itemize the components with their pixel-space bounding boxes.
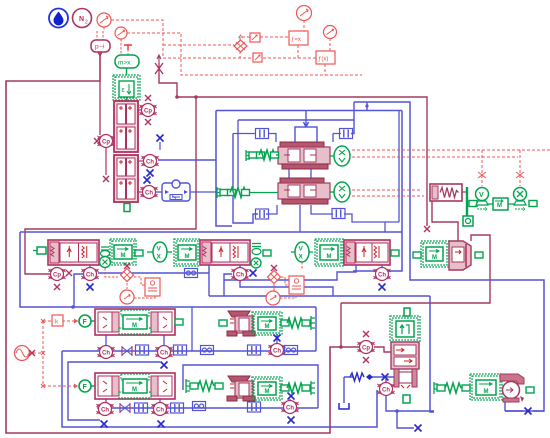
wire blue row1 left drop to bottom bus xyxy=(62,351,377,427)
port green right of M1 xyxy=(135,250,143,256)
port green left of pump xyxy=(413,252,421,258)
fixed pump spring chain left xyxy=(434,382,470,394)
spring chain left of damper1 xyxy=(246,150,279,161)
orifice Cp3 xyxy=(49,268,66,281)
lever link green xyxy=(463,187,477,226)
servovalve 1 xyxy=(48,240,99,265)
wire crimson to Cp bottom right xyxy=(341,347,393,352)
junction node B1 xyxy=(71,305,75,309)
hydraulic motor M3 xyxy=(315,239,343,266)
signal red dashed VX2 to diamond2 xyxy=(267,262,302,277)
signal red dashed gauge C drop xyxy=(303,20,305,31)
check valve Ch4 xyxy=(232,268,249,281)
signal red dashed drop to X meter xyxy=(519,150,521,186)
blue X below Ch row2 b xyxy=(158,421,165,428)
servovalve 3 xyxy=(344,240,390,265)
throttle valve X top xyxy=(155,55,163,74)
wire blue cylinder1 bottom stubs xyxy=(106,335,164,345)
red X above Cp1 xyxy=(145,95,151,101)
svg-text:M: M xyxy=(265,324,270,330)
wire blue Ch4 bottom to bus xyxy=(240,281,333,296)
blue X below Ch row2 a xyxy=(101,421,108,428)
signal box 2 xyxy=(289,276,304,294)
blue X on suction line xyxy=(525,408,532,415)
roller row2 xyxy=(193,402,206,411)
wire blue Ch3 left port down to cylinder feed xyxy=(74,274,83,307)
wire blue valve3 left stub to y280 xyxy=(224,263,356,280)
red X right of Cp3 xyxy=(66,270,72,276)
signal red dashed damper2 sensor pair xyxy=(352,190,424,196)
check valve Ch row1 a xyxy=(98,346,115,359)
capacitance row1 b xyxy=(174,345,187,355)
variable displacement pump motor xyxy=(421,241,449,267)
force source F2 xyxy=(79,380,95,392)
wire blue mid bus y232 xyxy=(20,231,402,233)
wire blue Ch4 top stub xyxy=(239,264,241,268)
wire blue Ch row1 line y351 xyxy=(62,350,316,352)
motor block section B xyxy=(252,377,282,400)
orifice Cp2 left of stack xyxy=(98,135,115,148)
signal red X mark on X drop xyxy=(516,172,524,178)
red X below Cp4 xyxy=(363,357,369,363)
wire blue upper bus y102 xyxy=(354,102,544,411)
svg-text:ƒ=x: ƒ=x xyxy=(291,37,301,43)
variable displacement pump body xyxy=(449,241,471,270)
blue X below ChB xyxy=(288,417,295,424)
accumulator xyxy=(430,184,466,201)
wire crimson accumulator drain xyxy=(432,201,458,241)
rotary actuator section A xyxy=(227,311,255,336)
gearbox VX ellipse 2 xyxy=(291,242,313,262)
position meter X xyxy=(514,188,538,211)
wire blue section B box xyxy=(183,365,318,408)
svg-text:F: F xyxy=(83,319,88,326)
check valve ChA xyxy=(269,344,286,357)
signal source sine circle xyxy=(15,346,36,361)
signal red dashed hwd drop xyxy=(324,64,326,75)
wire blue Ch1 to vertical x216 xyxy=(158,159,216,161)
wire Ch2 to pilot box xyxy=(156,191,162,193)
rotary damper 1 xyxy=(278,142,330,169)
spring chain left of damper2 xyxy=(217,187,278,198)
svg-text:M: M xyxy=(265,389,270,395)
signal red dashed lambda drop xyxy=(297,45,299,58)
wire blue vertical x430 xyxy=(430,296,434,412)
svg-text:F: F xyxy=(83,384,88,391)
port green right of fixed pump xyxy=(526,387,534,393)
red X below Cp1 xyxy=(145,119,151,125)
port green left of valve1 xyxy=(33,247,46,254)
hydraulic cylinder 2 xyxy=(95,373,175,399)
blue X below Ch5 xyxy=(379,284,386,291)
wire Cp2 to stack xyxy=(113,140,114,142)
wire blue mid return bus y296 xyxy=(209,295,430,297)
wire blue damper2 center drop xyxy=(299,205,301,232)
gauge 1 mid xyxy=(120,290,134,304)
check valve Ch row2 b xyxy=(152,403,169,416)
block lambda function xyxy=(289,31,308,45)
flow sensor X circle xyxy=(100,257,111,268)
svg-text:X: X xyxy=(157,254,162,261)
spring chain right section A xyxy=(281,316,315,330)
wire blue vertical x354 xyxy=(351,102,354,134)
wire blue actuatorA bottom stub xyxy=(276,334,278,343)
gauge A top left xyxy=(97,13,111,27)
capacitance below damper2 left xyxy=(256,209,269,219)
check valve Ch row1 b xyxy=(156,346,173,359)
svg-text:M: M xyxy=(497,203,502,209)
speed sensor ellipse damper2 xyxy=(330,182,350,202)
relief valve main body xyxy=(391,342,419,369)
summing diamond xyxy=(234,35,247,52)
blue X between Ch1 Ch2 xyxy=(147,170,154,177)
wire blue left column x233 xyxy=(233,134,258,224)
rotary damper 2 xyxy=(278,178,330,204)
svg-text:ε: ε xyxy=(122,87,125,94)
port green right of pump xyxy=(475,252,483,258)
signal red dashed source to k and F1 xyxy=(28,321,78,386)
nitrogen gas N2 icon xyxy=(73,9,92,28)
red X above Cp4 xyxy=(363,331,369,337)
blue X below Ch row1 b xyxy=(161,362,168,369)
svg-text:M: M xyxy=(121,253,126,259)
check valve Ch2 xyxy=(141,186,158,199)
svg-text:V: V xyxy=(299,246,304,253)
speed sensor ellipse damper1 xyxy=(330,146,350,166)
wire blue y120 branch xyxy=(238,119,354,121)
signal red arrows on F lines xyxy=(74,319,78,389)
svg-text:V: V xyxy=(479,192,484,199)
mass block M right xyxy=(488,198,514,210)
wire blue stub B2 xyxy=(366,102,368,111)
reservoir box top center xyxy=(295,127,317,143)
svg-text:N: N xyxy=(79,16,84,23)
hydraulic motor M2 xyxy=(174,239,200,266)
wire blue damper1 to damper2 xyxy=(289,169,311,178)
port green below relief valve xyxy=(403,395,410,403)
capacitance below damper2 right xyxy=(332,209,345,219)
junction node P2 xyxy=(194,95,198,99)
velocity meter V xyxy=(476,188,489,211)
wire Ch1 left port xyxy=(138,160,143,162)
signal red dashed to F2 xyxy=(43,385,78,387)
orifice Cp1 right of stack xyxy=(140,104,157,117)
blue X right of Ch4 xyxy=(250,270,257,277)
capacitance row2 b xyxy=(171,403,184,413)
wire blue arrow drop into reservoir box xyxy=(304,111,309,128)
svg-text:p⊣: p⊣ xyxy=(95,44,105,51)
red X left of Cp2 xyxy=(94,138,100,144)
junction node B2 xyxy=(365,104,368,107)
wire blue valve row pilot y273 xyxy=(98,265,209,273)
check valve Ch relief xyxy=(378,383,395,396)
orifice row2 xyxy=(120,403,130,413)
roller symbol on pilot wire y273 xyxy=(185,269,198,278)
signal red dashed Xcircle to sensor diamond1 xyxy=(105,268,118,277)
wire blue damper2 bottom left to cap xyxy=(266,205,277,214)
wire blue vertical x402 to lower return xyxy=(353,111,402,272)
blue X below Ch3 xyxy=(87,284,94,291)
wire crimson vertical x196 down to mid bus xyxy=(25,97,196,274)
signal red dashed diamond to box1 to lambda block xyxy=(240,37,291,40)
capacitance row2 a xyxy=(135,403,148,413)
spring chain left section B xyxy=(186,379,223,393)
gauge C top middle xyxy=(297,6,312,21)
red X dead end right xyxy=(424,226,430,232)
signal red dashed drop to V meter xyxy=(481,150,483,186)
svg-text:M: M xyxy=(327,254,332,260)
signal red T mark xyxy=(124,45,132,50)
fixed pump motor block xyxy=(470,374,502,400)
capacitance symbol top right xyxy=(340,129,353,139)
red X below Cp2 xyxy=(103,176,109,182)
fixed pump crimson body xyxy=(500,374,524,402)
capacitance row2 c xyxy=(248,402,261,412)
junction node P1 xyxy=(175,95,179,99)
check valve ChB xyxy=(282,401,299,414)
wire blue drop x238 to spring row xyxy=(237,120,239,188)
wire Cp1 to stack xyxy=(138,109,141,111)
wire blue Ch4 left drop x224 xyxy=(224,274,232,296)
signal red dashed gaugeA to corner xyxy=(111,20,234,58)
capacitance row1 a xyxy=(136,345,149,355)
svg-text:M: M xyxy=(132,387,137,393)
red X below Cp3 xyxy=(54,284,60,290)
spring chain right section B xyxy=(281,381,315,395)
wire blue section A left edge xyxy=(191,307,193,351)
wire crimson bus y97 to right dead end xyxy=(177,97,427,226)
water drop source icon xyxy=(49,9,68,28)
wire blue valve1 bottom stub xyxy=(89,265,91,267)
pressure sensor diamond 1 xyxy=(121,263,134,282)
wire blue X stub xyxy=(159,142,161,150)
rotary actuator section B xyxy=(227,376,255,401)
roller row1 d xyxy=(285,346,298,355)
signal red dashed damper1 sensor pair xyxy=(352,150,550,157)
relief valve piston xyxy=(394,369,417,388)
wire blue damper2 right drop to cap2 xyxy=(311,205,399,232)
svg-text:M: M xyxy=(132,323,137,329)
pilot assembly box xyxy=(162,180,216,201)
signal red dashed gaugeA down to D block xyxy=(97,27,104,40)
block hwd function xyxy=(316,51,335,64)
wire crimson x100 lower stub xyxy=(99,81,101,135)
blue X on relief pilot line xyxy=(382,374,389,381)
svg-text:M: M xyxy=(484,389,489,395)
wire blue inner left L xyxy=(68,362,160,420)
check valve Ch3 xyxy=(82,268,99,281)
tank symbol blue xyxy=(339,403,349,409)
green orifice pair above X circle xyxy=(101,247,110,257)
wire crimson vertical x341 xyxy=(340,303,342,347)
damper spring on relief pilot line xyxy=(350,373,373,381)
wire blue Ch relief drop xyxy=(386,379,434,411)
wire crimson supply bus left loop xyxy=(6,52,341,433)
wire blue Ch row2 line y408 xyxy=(97,407,318,409)
wire blue top feeder y110 xyxy=(216,110,402,112)
wire blue drain branch with X end xyxy=(397,411,414,428)
gain box 2 xyxy=(253,53,262,62)
wire blue Ch5 top stub xyxy=(381,265,383,267)
wire blue tank stem xyxy=(343,377,345,403)
wire Ch2 left port xyxy=(138,191,142,193)
signal red dashed diamond2 to box2 and gauge2 xyxy=(274,277,296,298)
roller row1 xyxy=(201,346,214,355)
wire blue vertical x399 xyxy=(398,111,400,223)
junction node B3 xyxy=(395,409,399,413)
wire blue drop x209 to return bus xyxy=(208,273,210,296)
blue X above Ch1 area xyxy=(157,135,164,142)
orifice row1 xyxy=(122,346,132,356)
wire blue pump suction y411 xyxy=(505,400,544,411)
orifice Cp4 bottom xyxy=(358,341,375,354)
spring mass block epsilon xyxy=(113,68,140,101)
motor block section A xyxy=(252,312,282,335)
svg-text:X: X xyxy=(299,254,304,261)
wire blue section A right riser xyxy=(315,307,317,351)
signal red dashed gauge D drop xyxy=(329,38,331,51)
gain box 1 xyxy=(250,33,260,42)
junction node P3 xyxy=(339,345,343,349)
signal red dashed into mx block xyxy=(121,39,128,55)
directional valve stack lower xyxy=(114,155,138,202)
svg-text:m>x: m>x xyxy=(118,59,131,66)
capacitance row1 c xyxy=(248,345,261,355)
wire blue relief damper line xyxy=(344,376,395,378)
junction marks on dashed feeder xyxy=(41,319,45,388)
hydraulic cylinder 1 xyxy=(95,309,175,335)
wire blue cap row left xyxy=(233,134,341,143)
gauge B xyxy=(115,27,127,39)
wire blue actuatorB bottom stub xyxy=(289,399,291,401)
blue X second xyxy=(144,177,151,184)
gauge 2 mid xyxy=(266,291,280,305)
wire crimson mid bus y303 xyxy=(341,235,490,303)
gearbox VX ellipse 1 xyxy=(147,242,172,262)
port green left section A xyxy=(219,320,227,326)
blue X drain end xyxy=(415,425,422,432)
svg-text:M: M xyxy=(185,254,190,260)
capacitance symbol top left xyxy=(256,129,269,139)
check valve Ch5 xyxy=(374,268,391,281)
signal red X mark on V drop xyxy=(478,172,486,178)
wire Cp2 drain down xyxy=(105,148,107,175)
blue X below section A xyxy=(274,335,281,342)
servovalve 2 xyxy=(200,240,250,265)
signal box 1 xyxy=(145,278,160,296)
signal red dashed gaugeB long bus xyxy=(127,33,362,75)
relief valve pilot block xyxy=(390,308,420,342)
check valve Ch1 right of stack xyxy=(142,155,159,168)
svg-text:V: V xyxy=(157,246,162,253)
signal red dashed y58 row xyxy=(163,51,317,58)
wire blue left feeder x20 down to cylinder rows xyxy=(20,232,316,307)
port green right of valve3 xyxy=(391,250,399,256)
signal red dashed diamond1 to box and gauge xyxy=(127,277,155,298)
svg-text:2: 2 xyxy=(85,20,88,26)
check valve Ch row2 a xyxy=(97,403,114,416)
block D pressure dynamics xyxy=(91,40,110,56)
port green right of cylinder1 xyxy=(175,319,183,325)
wire blue cylinder2 bottom stubs xyxy=(106,399,160,402)
svg-text:M: M xyxy=(432,255,437,261)
blue X above ChB xyxy=(288,393,295,400)
svg-text:ƒ(x): ƒ(x) xyxy=(318,57,328,63)
green orifice pair right of valve2 xyxy=(251,244,261,269)
port green under stack xyxy=(124,204,130,212)
force source F1 xyxy=(79,315,95,327)
hydraulic motor M1 xyxy=(110,239,136,265)
port green xyxy=(263,250,271,256)
directional valve stack upper xyxy=(114,101,138,152)
block mx gas law xyxy=(115,55,139,68)
gauge D top middle xyxy=(324,26,337,39)
pressure sensor diamond 2 xyxy=(268,265,281,284)
wire crimson pilot line from valve X down to node P1 xyxy=(159,74,177,97)
wire blue vertical x216 xyxy=(216,111,232,227)
gain block k xyxy=(52,315,63,326)
